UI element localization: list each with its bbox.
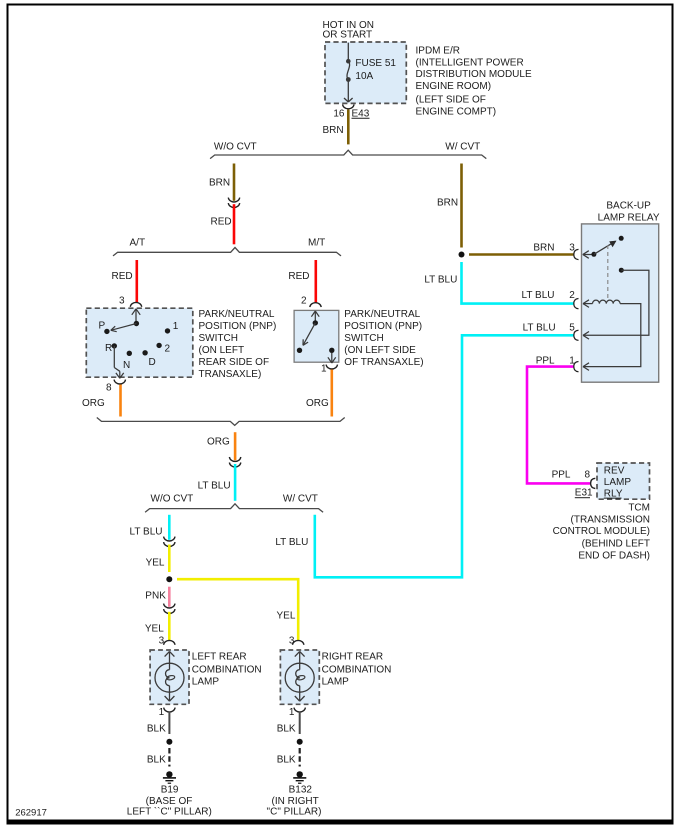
svg-text:A/T: A/T <box>130 237 146 248</box>
junction node left BLK <box>166 739 172 745</box>
wire BLK right dashed <box>277 748 300 767</box>
svg-text:LAMP: LAMP <box>192 677 220 688</box>
wire LT BLU w/o cvt lower <box>130 515 170 540</box>
wire BRN from fuse <box>323 110 349 145</box>
svg-text:8: 8 <box>585 470 591 481</box>
svg-text:3: 3 <box>119 295 125 306</box>
svg-text:TCM: TCM <box>628 503 650 514</box>
wire BRN to relay pin 3 <box>469 242 575 254</box>
split W/O CVT / W CVT <box>210 141 486 158</box>
svg-text:LEFT ``C" PILLAR): LEFT ``C" PILLAR) <box>127 805 212 817</box>
PNP switch U1 box (A/T) <box>86 308 193 377</box>
inline connector BRN-RED <box>228 198 239 208</box>
pin 1 connector left lamp <box>159 707 176 718</box>
svg-text:N: N <box>123 360 130 371</box>
connector E31 pin 8 <box>552 470 596 499</box>
svg-text:POSITION (PNP): POSITION (PNP) <box>199 321 277 332</box>
svg-text:(ON LEFT: (ON LEFT <box>199 345 245 356</box>
svg-text:PPL: PPL <box>536 355 555 366</box>
diagram number 262917 <box>15 807 47 818</box>
PNP switch 2 label text <box>344 309 423 368</box>
svg-text:(INTELLIGENT POWER: (INTELLIGENT POWER <box>416 57 524 68</box>
connector E43 pin 16 <box>333 104 369 119</box>
PNP switch 1 internals <box>104 309 170 379</box>
svg-text:REV: REV <box>604 466 625 477</box>
svg-text:LEFT REAR: LEFT REAR <box>192 652 247 663</box>
relay actuator dashed link <box>607 245 609 299</box>
svg-text:YEL: YEL <box>145 624 164 635</box>
wire RED a/t branch <box>112 260 137 303</box>
relay K1 box <box>582 224 659 382</box>
svg-text:COMBINATION: COMBINATION <box>322 664 392 675</box>
svg-text:262917: 262917 <box>15 807 47 818</box>
pin 1 connector PNP switch 2 <box>321 364 338 375</box>
svg-text:"C" PILLAR): "C" PILLAR) <box>267 806 322 817</box>
pin 8 connector PNP switch 1 <box>106 380 126 394</box>
svg-text:P: P <box>99 320 106 331</box>
wire BRN w/o cvt branch <box>209 164 234 201</box>
svg-text:16: 16 <box>333 108 345 119</box>
svg-text:2: 2 <box>165 343 171 354</box>
right lamp bulb <box>285 651 314 701</box>
wire ORG merged <box>207 432 235 460</box>
junction node BRN <box>459 252 465 258</box>
svg-text:DISTRIBUTION MODULE: DISTRIBUTION MODULE <box>416 69 532 80</box>
svg-text:RED: RED <box>211 217 232 228</box>
svg-text:E31: E31 <box>575 488 593 499</box>
svg-text:RED: RED <box>288 271 309 282</box>
svg-text:2: 2 <box>569 290 575 301</box>
wire RED <box>211 204 235 244</box>
svg-text:LT BLU: LT BLU <box>198 481 231 492</box>
pin 3 connector left lamp <box>159 635 175 646</box>
svg-text:BLK: BLK <box>147 723 166 734</box>
svg-text:BACK-UP: BACK-UP <box>606 201 651 212</box>
relay coil pin 2 to pin 1 <box>583 300 641 371</box>
svg-text:8: 8 <box>106 383 112 394</box>
svg-text:BLK: BLK <box>277 755 296 766</box>
svg-text:B132: B132 <box>289 784 313 795</box>
svg-text:10A: 10A <box>355 71 373 82</box>
svg-text:1: 1 <box>321 364 327 375</box>
svg-text:TRANSAXLE): TRANSAXLE) <box>199 369 262 380</box>
svg-text:POSITION (PNP): POSITION (PNP) <box>344 321 422 332</box>
PNP switch U2 box (M/T) <box>294 310 339 362</box>
svg-text:LT BLU: LT BLU <box>275 537 308 548</box>
wire YEL to left lamp <box>145 612 169 641</box>
wire LT BLU relay pin 5 to W/ CVT branch <box>275 323 575 578</box>
PNP switch 1 pin letters <box>99 320 179 371</box>
svg-text:(BEHIND LEFT: (BEHIND LEFT <box>582 538 650 549</box>
svg-text:BRN: BRN <box>533 242 554 253</box>
relay pin connectors <box>574 249 579 371</box>
split W/O CVT / W CVT lower <box>145 493 323 512</box>
ground B132 <box>267 771 322 817</box>
svg-text:ORG: ORG <box>306 398 329 409</box>
REV LAMP RLY box <box>597 463 650 499</box>
svg-text:(IN RIGHT: (IN RIGHT <box>271 796 318 807</box>
svg-text:W/O CVT: W/O CVT <box>151 493 194 504</box>
svg-text:W/ CVT: W/ CVT <box>445 141 480 152</box>
svg-text:LT BLU: LT BLU <box>523 323 556 334</box>
svg-text:CONTROL MODULE): CONTROL MODULE) <box>553 526 650 537</box>
merge brace ORG <box>97 418 345 426</box>
svg-text:YEL: YEL <box>146 558 165 569</box>
svg-text:PNK: PNK <box>145 591 166 602</box>
svg-text:LT BLU: LT BLU <box>424 275 457 286</box>
wire PPL relay pin 1 to TCM <box>527 355 591 483</box>
svg-text:(TRANSMISSION: (TRANSMISSION <box>571 515 650 526</box>
svg-text:RIGHT REAR: RIGHT REAR <box>322 652 384 663</box>
left lamp label text <box>192 652 262 688</box>
svg-text:1: 1 <box>173 321 179 332</box>
svg-text:LAMP RELAY: LAMP RELAY <box>598 212 660 223</box>
svg-text:FUSE 51: FUSE 51 <box>355 58 396 69</box>
wire ORG right <box>306 370 332 417</box>
svg-text:BLK: BLK <box>147 755 166 766</box>
svg-text:RED: RED <box>112 271 133 282</box>
svg-text:LT BLU: LT BLU <box>130 527 163 538</box>
inline connector PNK-YEL <box>164 604 175 614</box>
wire ORG left <box>82 385 121 417</box>
left rear combination lamp box <box>150 650 189 704</box>
split A/T / M/T <box>113 237 341 256</box>
svg-text:ENGINE COMPT): ENGINE COMPT) <box>416 106 497 117</box>
node HOT IN ON OR START <box>323 20 374 41</box>
relay BACK-UP LAMP RELAY title <box>598 201 660 224</box>
svg-text:OR START: OR START <box>323 30 373 41</box>
IPDM E/R fuse box <box>325 42 406 103</box>
svg-text:M/T: M/T <box>308 237 325 248</box>
wire LT BLU to relay pin 2 <box>424 262 575 304</box>
relay contact to pin 5 <box>583 268 649 339</box>
svg-text:ORG: ORG <box>82 398 105 409</box>
wire LT BLU merged <box>198 464 236 501</box>
svg-text:BRN: BRN <box>323 125 344 136</box>
PNP switch 1 label text <box>199 309 277 380</box>
wire PNK <box>145 587 169 607</box>
svg-text:COMBINATION: COMBINATION <box>192 664 262 675</box>
svg-text:PARK/NEUTRAL: PARK/NEUTRAL <box>199 309 275 320</box>
svg-text:REAR SIDE OF: REAR SIDE OF <box>199 357 270 368</box>
svg-text:PPL: PPL <box>552 470 571 481</box>
svg-text:SWITCH: SWITCH <box>344 333 383 344</box>
pin 2 connector PNP switch 2 <box>301 295 321 307</box>
wire BRN w/ cvt branch <box>437 164 462 248</box>
svg-text:R: R <box>105 343 112 354</box>
wire RED m/t branch <box>288 260 315 303</box>
svg-text:E43: E43 <box>352 108 370 119</box>
svg-text:(ON LEFT SIDE: (ON LEFT SIDE <box>344 345 416 356</box>
inline connector LTBLU-YEL <box>164 537 175 547</box>
junction node YEL <box>166 576 172 582</box>
right lamp label text <box>322 652 392 688</box>
wire YEL upper <box>146 545 170 573</box>
right rear combination lamp box <box>280 650 319 704</box>
PNP switch 2 internals <box>297 311 336 363</box>
svg-text:ENGINE ROOM): ENGINE ROOM) <box>416 81 492 92</box>
svg-text:IPDM E/R: IPDM E/R <box>416 46 460 57</box>
svg-text:PARK/NEUTRAL: PARK/NEUTRAL <box>344 309 420 320</box>
svg-text:LAMP: LAMP <box>604 477 632 488</box>
svg-text:D: D <box>149 357 156 368</box>
TCM label text <box>553 503 650 562</box>
svg-text:(LEFT SIDE OF: (LEFT SIDE OF <box>416 94 486 105</box>
wire YEL to right lamp <box>177 579 298 640</box>
svg-text:BRN: BRN <box>209 178 230 189</box>
svg-text:B19: B19 <box>161 784 179 795</box>
ground B19 <box>127 771 212 817</box>
pin 1 connector right lamp <box>289 707 306 718</box>
svg-text:LT BLU: LT BLU <box>522 290 555 301</box>
inline connector ORG-LTBLU <box>229 457 240 467</box>
svg-text:2: 2 <box>301 295 307 306</box>
svg-text:LAMP: LAMP <box>322 677 350 688</box>
svg-text:(BASE OF: (BASE OF <box>146 796 193 807</box>
svg-text:YEL: YEL <box>277 611 296 622</box>
IPDM E/R text <box>416 46 532 118</box>
wire BLK right solid <box>277 712 300 735</box>
left lamp bulb <box>155 651 184 701</box>
svg-text:SWITCH: SWITCH <box>199 333 238 344</box>
svg-text:ORG: ORG <box>207 437 230 448</box>
relay switch contact pin 3 <box>583 236 624 258</box>
svg-text:END OF DASH): END OF DASH) <box>578 551 650 562</box>
svg-text:BRN: BRN <box>437 198 458 209</box>
wire BLK left solid <box>147 712 170 735</box>
fuse value labels <box>355 58 396 82</box>
junction node right BLK <box>297 739 303 745</box>
svg-text:W/ CVT: W/ CVT <box>283 493 318 504</box>
fuse FUSE 51 10A <box>344 43 353 102</box>
svg-text:W/O CVT: W/O CVT <box>214 141 257 152</box>
pin 3 connector PNP switch 1 <box>119 295 142 307</box>
svg-text:BLK: BLK <box>277 723 296 734</box>
pin 3 connector right lamp <box>289 635 304 646</box>
svg-text:OF TRANSAXLE): OF TRANSAXLE) <box>344 357 423 368</box>
wire BLK left dashed <box>147 748 170 767</box>
